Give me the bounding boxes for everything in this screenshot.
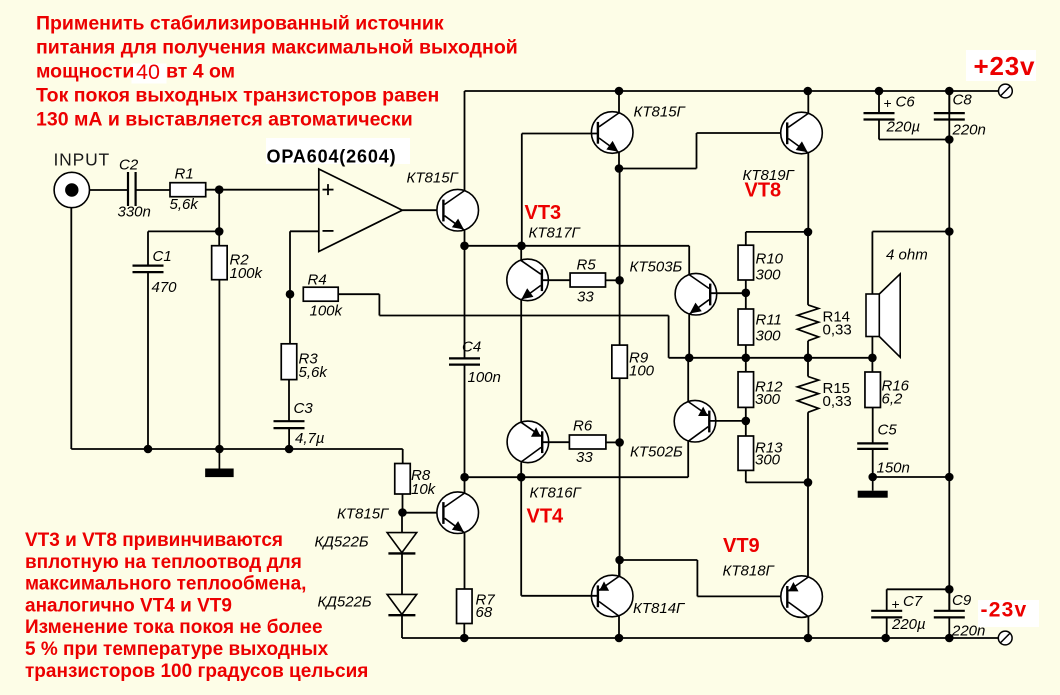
wire VT2 base riser bbox=[521, 134, 523, 246]
wire VT10 base riser bbox=[520, 477, 522, 596]
wire VT4 collector down bbox=[520, 462, 522, 477]
wire VT7 collector up bbox=[464, 477, 466, 493]
wire output to R12 bbox=[745, 358, 747, 372]
wire KT503 emitter down bbox=[688, 315, 690, 358]
node C1 ground bbox=[144, 445, 153, 454]
label R3 bbox=[299, 351, 319, 368]
svg-text:КД522Б: КД522Б bbox=[315, 534, 369, 551]
svg-text:VT4: VT4 bbox=[527, 506, 565, 528]
node VT8 emitter bbox=[804, 228, 813, 237]
svg-text:4 ohm: 4 ohm bbox=[886, 247, 928, 264]
label R13 bbox=[755, 440, 783, 457]
node R8 diode base bbox=[398, 508, 407, 517]
svg-text:100k: 100k bbox=[310, 303, 344, 320]
label VT4 bbox=[527, 506, 565, 528]
label R14 bbox=[823, 309, 851, 326]
node R12 R13 junction bbox=[742, 417, 751, 426]
wire op-amp minus input bbox=[290, 230, 319, 232]
capacitor C7 bbox=[871, 611, 902, 618]
node output R11 bbox=[742, 354, 751, 363]
label R1 value 5,6k bbox=[170, 196, 200, 213]
label R8 value 10k bbox=[411, 481, 437, 498]
wire VT8 emitter down bbox=[807, 153, 809, 232]
svg-text:6,2: 6,2 bbox=[882, 391, 904, 408]
svg-text:вт 4 ом: вт 4 ом bbox=[166, 61, 235, 83]
svg-text:300: 300 bbox=[756, 328, 782, 345]
resistor R7 bbox=[457, 589, 473, 624]
wire C6 bottom lead bbox=[879, 120, 949, 140]
wire VT2 base bbox=[522, 133, 598, 135]
note top-left power supply text bbox=[36, 13, 518, 131]
label R13 value 300 bbox=[755, 452, 781, 469]
label C8 bbox=[953, 92, 973, 109]
ground symbol left bbox=[205, 449, 234, 477]
svg-text:220µ: 220µ bbox=[886, 119, 921, 136]
svg-text:5 % при температуре выходных: 5 % при температуре выходных bbox=[25, 639, 329, 660]
wire C1 bottom lead bbox=[147, 272, 149, 449]
wire node down to R2 node bbox=[218, 190, 220, 232]
node R7 bottom bbox=[460, 634, 469, 643]
transistor VT6 KT502B bbox=[674, 400, 716, 442]
node R10 R11 junction bbox=[742, 289, 751, 298]
label VT9 bbox=[723, 535, 760, 557]
svg-text:C4: C4 bbox=[462, 339, 481, 356]
svg-text:КТ815Г: КТ815Г bbox=[337, 506, 390, 523]
ground rail bbox=[71, 448, 402, 450]
resistor R5 bbox=[570, 273, 605, 287]
label C3 value 4,7µ bbox=[295, 430, 325, 447]
svg-text:40: 40 bbox=[136, 60, 160, 84]
node R1 out bbox=[215, 185, 224, 194]
node R2 top bbox=[215, 227, 224, 236]
wire KT502 collector down bbox=[687, 441, 689, 477]
label R15 value 0,33 bbox=[823, 393, 852, 410]
wire VT4 base bbox=[542, 441, 569, 443]
label OPA604(2604) bbox=[267, 147, 397, 167]
lower net wire bbox=[465, 476, 689, 478]
label KT819G bbox=[743, 167, 796, 184]
svg-text:максимального теплообмена,: максимального теплообмена, bbox=[25, 574, 306, 595]
svg-text:аналогично VT4 и VT9: аналогично VT4 и VT9 bbox=[25, 595, 232, 616]
svg-text:КТ815Г: КТ815Г bbox=[634, 104, 687, 121]
svg-text:R11: R11 bbox=[756, 312, 782, 329]
label R1 bbox=[175, 166, 194, 183]
label R11 bbox=[756, 312, 782, 329]
label VT3 bbox=[525, 202, 562, 224]
node rail KT815 top bbox=[615, 87, 624, 96]
wire C7 top lead bbox=[887, 589, 950, 611]
wire KT502 base bbox=[709, 420, 746, 422]
svg-text:0,33: 0,33 bbox=[823, 393, 852, 410]
wire C2 to R1 bbox=[136, 189, 170, 191]
label C1 bbox=[153, 248, 172, 265]
svg-text:C1: C1 bbox=[153, 248, 172, 265]
svg-text:КТ816Г: КТ816Г bbox=[530, 485, 583, 502]
svg-text:470: 470 bbox=[152, 279, 178, 296]
capacitor C3 bbox=[274, 421, 305, 428]
capacitor C6 bbox=[864, 113, 895, 119]
svg-text:130 мА и выставляется автомати: 130 мА и выставляется автоматически bbox=[36, 109, 413, 131]
svg-text:КД522Б: КД522Б bbox=[318, 594, 372, 611]
wire bias chain lower bbox=[619, 378, 621, 576]
label R5 value 33 bbox=[577, 289, 594, 306]
wire base node to VT7 bbox=[403, 512, 437, 514]
resistor R2 bbox=[212, 246, 228, 280]
wire VT7 emitter down bbox=[464, 533, 466, 589]
label R5 bbox=[577, 257, 597, 274]
node VT2 emitter bbox=[615, 164, 624, 173]
wire VT1 collector up bbox=[464, 91, 466, 191]
node VT4 collector bbox=[517, 473, 526, 482]
label R9 value 100 bbox=[629, 363, 655, 380]
node R5 right bbox=[615, 276, 624, 285]
wire VT1 emitter down bbox=[464, 230, 466, 246]
label R7 bbox=[476, 592, 496, 609]
label R12 bbox=[755, 379, 783, 396]
capacitor C8 bbox=[934, 113, 965, 119]
wire KT502 emitter up bbox=[687, 358, 689, 402]
node VT9 base branch bbox=[615, 556, 624, 565]
wire C5 to ground node bbox=[872, 449, 874, 477]
label KT502B bbox=[630, 444, 683, 461]
label KT816G bbox=[530, 485, 583, 502]
wire C5 node to right vertical bbox=[873, 476, 950, 478]
label R2 value 100k bbox=[230, 265, 264, 282]
wire R2 bottom lead bbox=[218, 280, 220, 449]
svg-text:OPA604(2604): OPA604(2604) bbox=[267, 147, 397, 167]
white box behind +23v bbox=[966, 50, 1036, 81]
label 4 ohm bbox=[886, 247, 928, 264]
diode VD1 KD522B bbox=[387, 533, 417, 554]
svg-text:C3: C3 bbox=[294, 400, 314, 417]
wire output to R16 bbox=[871, 358, 873, 372]
wire KT503 base bbox=[710, 292, 746, 294]
svg-text:R4: R4 bbox=[308, 272, 327, 289]
label -23v bbox=[981, 599, 1028, 622]
capacitor C5 bbox=[857, 443, 888, 449]
svg-text:+23v: +23v bbox=[974, 51, 1036, 81]
node rail VT8 bbox=[804, 87, 813, 96]
svg-text:R1: R1 bbox=[175, 166, 194, 183]
wire R7 to bottom rail bbox=[463, 624, 465, 639]
wire R2 top lead bbox=[218, 231, 220, 245]
label R3 value 5,6k bbox=[299, 364, 329, 381]
capacitor C4 bbox=[449, 358, 480, 364]
svg-text:R6: R6 bbox=[573, 418, 593, 435]
svg-text:C2: C2 bbox=[119, 157, 139, 174]
capacitor C9 bbox=[934, 611, 965, 618]
wire C9 top lead bbox=[948, 589, 950, 611]
label R9 bbox=[629, 350, 649, 367]
resistor R13 bbox=[738, 436, 754, 470]
label +23v bbox=[974, 51, 1036, 81]
output net wire bbox=[669, 357, 873, 359]
transistor VT10 KT814G bbox=[591, 575, 633, 617]
transistor VT9 KT818G bbox=[781, 576, 823, 618]
label C7 plus bbox=[892, 596, 900, 612]
resistor R9 bbox=[612, 345, 628, 378]
svg-text:68: 68 bbox=[476, 604, 493, 621]
svg-text:R5: R5 bbox=[577, 257, 597, 274]
wire C9 bottom lead bbox=[948, 617, 950, 638]
wire emitter node to R10 bbox=[746, 232, 808, 245]
svg-text:КТ503Б: КТ503Б bbox=[630, 259, 683, 276]
resistor R3 bbox=[281, 344, 297, 380]
label C1 value 470 bbox=[152, 279, 178, 296]
transistor VT8 KT819G bbox=[781, 112, 823, 154]
transistor VT1 KT815G bbox=[437, 189, 479, 231]
label C3 bbox=[294, 400, 314, 417]
svg-text:Применить стабилизированный ис: Применить стабилизированный источник bbox=[36, 13, 444, 35]
wire between diodes bbox=[401, 554, 403, 594]
svg-text:VT8: VT8 bbox=[745, 180, 782, 202]
resistor R11 bbox=[738, 309, 754, 345]
label C6 bbox=[896, 94, 916, 111]
resistor R1 bbox=[170, 183, 206, 197]
node VT10 collector bottom bbox=[615, 634, 624, 643]
svg-text:C6: C6 bbox=[896, 94, 916, 111]
wire jack down bbox=[70, 208, 72, 449]
svg-text:VT9: VT9 bbox=[723, 535, 760, 557]
node C8 bottom bbox=[945, 135, 954, 144]
svg-text:100n: 100n bbox=[468, 369, 501, 386]
label R12 value 300 bbox=[755, 391, 781, 408]
input jack J1 bbox=[54, 172, 89, 207]
speaker 4 ohm bbox=[866, 274, 900, 357]
wire R12 to R13 bbox=[745, 407, 747, 436]
wire VT3 base bbox=[542, 279, 570, 281]
node VT1 emitter bbox=[460, 242, 469, 251]
label C9 value 220n bbox=[951, 623, 985, 640]
label R4 value 100k bbox=[310, 303, 344, 320]
wire R10 to R11 bbox=[745, 280, 747, 309]
node output speaker bbox=[868, 354, 877, 363]
diode VD2 KD522B bbox=[387, 594, 417, 615]
label KT814G bbox=[633, 600, 686, 617]
svg-text:вплотную на теплоотвод для: вплотную на теплоотвод для bbox=[25, 552, 302, 573]
feedback wire horizontal bbox=[379, 315, 668, 317]
node rail C8 bbox=[945, 87, 954, 96]
label KT815G lower bbox=[337, 506, 390, 523]
node C4 KT815 junction bbox=[460, 473, 469, 482]
node C7 bottom bbox=[881, 634, 890, 643]
svg-text:питания для получения максимал: питания для получения максимальной выход… bbox=[36, 37, 518, 59]
svg-text:INPUT: INPUT bbox=[54, 150, 111, 170]
svg-text:КТ814Г: КТ814Г bbox=[633, 600, 686, 617]
wire speaker bottom bbox=[871, 337, 873, 358]
op-amp U1 bbox=[319, 169, 403, 252]
svg-text:+: + bbox=[892, 596, 900, 612]
node C5 ground bbox=[868, 473, 877, 482]
wire ground rail to R8 bbox=[402, 449, 404, 464]
wire minus input down to R4 bbox=[289, 231, 291, 294]
label C8 value 220n bbox=[952, 122, 986, 139]
svg-text:+: + bbox=[884, 95, 892, 111]
node KT503 emitter output net bbox=[685, 354, 694, 363]
note bottom-left heatsink text bbox=[25, 530, 368, 682]
node output R14 bbox=[804, 354, 813, 363]
wire R6 to bias chain bbox=[606, 441, 620, 443]
label KD522B second bbox=[318, 594, 372, 611]
wire R11 to output net bbox=[745, 345, 747, 358]
resistor R8 bbox=[395, 464, 411, 495]
transistor VT2 KT815G top bbox=[591, 112, 633, 154]
label C4 bbox=[462, 339, 481, 356]
label C6 plus bbox=[884, 95, 892, 111]
wire R13 to VT9 node bbox=[746, 470, 808, 482]
svg-text:транзисторов 100 градусов цель: транзисторов 100 градусов цельсия bbox=[25, 661, 368, 682]
svg-text:C5: C5 bbox=[878, 422, 898, 439]
wire VT8 emitter to R14 bbox=[807, 232, 809, 305]
label C6 value 220µ bbox=[886, 119, 921, 136]
svg-text:300: 300 bbox=[755, 452, 781, 469]
svg-text:Ток покоя выходных транзисторо: Ток покоя выходных транзисторов равен bbox=[36, 85, 439, 107]
transistor VT5 KT503B bbox=[675, 273, 717, 315]
svg-text:VT3: VT3 bbox=[525, 202, 562, 224]
label C4 value 100n bbox=[468, 369, 501, 386]
label INPUT bbox=[54, 150, 111, 170]
wire R5 to bias chain bbox=[606, 279, 620, 281]
node right vertical 477 bbox=[945, 473, 954, 482]
wire C1 top lead bbox=[147, 231, 149, 265]
label C7 bbox=[903, 593, 923, 610]
wire VT9 base step bbox=[620, 560, 788, 596]
wire VT2 emitter down bbox=[618, 152, 620, 168]
svg-text:4,7µ: 4,7µ bbox=[295, 430, 325, 447]
label C2 bbox=[119, 157, 139, 174]
label R6 bbox=[573, 418, 593, 435]
wire node to C1 bbox=[148, 230, 219, 232]
label KT815G top bbox=[634, 104, 687, 121]
wire C4 bottom lead bbox=[464, 365, 466, 478]
label KT818G bbox=[723, 563, 776, 580]
wire C6 top lead bbox=[878, 91, 880, 113]
resistor R14 bbox=[797, 305, 818, 358]
label R7 value 68 bbox=[476, 604, 493, 621]
node R13 R15 VT9 junction bbox=[804, 478, 813, 487]
wire C3 bottom lead bbox=[288, 428, 290, 449]
node R4 left bbox=[286, 290, 295, 299]
resistor R15 bbox=[797, 358, 818, 413]
label KD522B first bbox=[315, 534, 369, 551]
label R10 bbox=[756, 251, 784, 268]
svg-text:150n: 150n bbox=[877, 460, 910, 477]
label R14 value 0,33 bbox=[823, 322, 852, 339]
label KT503B bbox=[630, 259, 683, 276]
svg-text:мощности: мощности bbox=[36, 61, 134, 83]
svg-text:100: 100 bbox=[629, 363, 655, 380]
wire C7 bottom lead bbox=[886, 617, 888, 638]
ground symbol right bbox=[858, 477, 888, 498]
label R16 bbox=[882, 378, 910, 395]
label VT8 bbox=[745, 180, 782, 202]
terminal -23v bbox=[998, 631, 1012, 645]
label C9 bbox=[952, 592, 972, 609]
feedback wire down to output net bbox=[668, 316, 670, 358]
label C5 value 150n bbox=[877, 460, 910, 477]
wire VT10 collector down bbox=[618, 616, 620, 638]
label KT817G bbox=[529, 225, 582, 242]
svg-text:330n: 330n bbox=[118, 204, 151, 221]
top rail +23v bbox=[465, 90, 999, 92]
wire diode stem bbox=[401, 513, 403, 533]
svg-text:220n: 220n bbox=[952, 122, 986, 139]
svg-text:33: 33 bbox=[576, 449, 593, 466]
svg-text:10k: 10k bbox=[411, 481, 437, 498]
svg-text:-23v: -23v bbox=[981, 599, 1028, 622]
wire KT503 collector drop bbox=[688, 246, 690, 274]
label R15 bbox=[823, 380, 851, 397]
resistor R16 bbox=[865, 372, 881, 408]
white box behind -23v bbox=[978, 600, 1039, 627]
bottom rail -23v bbox=[402, 637, 998, 639]
svg-text:КТ502Б: КТ502Б bbox=[630, 444, 683, 461]
svg-text:220n: 220n bbox=[951, 623, 985, 640]
node VT3 collector bbox=[517, 242, 526, 251]
svg-text:C9: C9 bbox=[952, 592, 972, 609]
svg-text:КТ817Г: КТ817Г bbox=[529, 225, 582, 242]
transistor VT3 KT817G bbox=[507, 259, 549, 301]
resistor R4 bbox=[303, 287, 338, 301]
node rail C6 bbox=[875, 87, 884, 96]
svg-text:100k: 100k bbox=[230, 265, 264, 282]
label R11 value 300 bbox=[756, 328, 782, 345]
wire jack to C2 bbox=[90, 189, 128, 191]
node C9 bottom bbox=[945, 634, 954, 643]
wire VT2 emitter to VT8 base step bbox=[619, 133, 787, 169]
wire VT3 collector up bbox=[520, 246, 522, 261]
wire C8 top lead bbox=[948, 91, 950, 113]
label R10 value 300 bbox=[756, 267, 782, 284]
svg-text:5,6k: 5,6k bbox=[299, 364, 329, 381]
transistor VT4 KT816G bbox=[507, 421, 549, 463]
label R2 bbox=[230, 252, 250, 269]
node VT9 collector bottom bbox=[804, 634, 813, 643]
node R2 ground bbox=[215, 445, 224, 454]
wire R4 to feedback corner bbox=[338, 294, 379, 315]
node C9 top bbox=[945, 585, 954, 594]
wire VT10 emitter up bbox=[618, 560, 620, 576]
wire C4 top lead bbox=[464, 246, 466, 359]
node C3 ground bbox=[285, 445, 294, 454]
svg-text:300: 300 bbox=[756, 267, 782, 284]
label R6 value 33 bbox=[576, 449, 593, 466]
svg-text:300: 300 bbox=[755, 391, 781, 408]
wire VT3 emitter down to VT4 bbox=[520, 300, 522, 422]
wire speaker top bbox=[872, 232, 949, 295]
svg-text:R10: R10 bbox=[756, 251, 784, 268]
wire R3 to C3 bbox=[288, 380, 290, 422]
terminal +23v bbox=[999, 84, 1013, 98]
right vertical wire bbox=[948, 91, 950, 611]
label C5 bbox=[878, 422, 898, 439]
wire bias chain upper bbox=[619, 169, 621, 346]
svg-text:0,33: 0,33 bbox=[823, 322, 852, 339]
node R6 right bbox=[615, 438, 624, 447]
svg-text:КТ818Г: КТ818Г bbox=[723, 563, 776, 580]
wire R15 down to VT9 bbox=[807, 412, 809, 576]
svg-text:C7: C7 bbox=[903, 593, 923, 610]
resistor R10 bbox=[738, 245, 754, 280]
transistor VT7 KT815G lower bbox=[437, 492, 479, 534]
svg-text:220µ: 220µ bbox=[891, 616, 926, 633]
svg-text:5,6k: 5,6k bbox=[170, 196, 200, 213]
svg-text:VT3 и VT8 привинчиваются: VT3 и VT8 привинчиваются bbox=[25, 530, 283, 551]
svg-text:C8: C8 bbox=[953, 92, 973, 109]
white box behind OPA label bbox=[266, 138, 410, 164]
wire VT8 collector up bbox=[807, 91, 809, 113]
resistor R12 bbox=[738, 372, 754, 408]
